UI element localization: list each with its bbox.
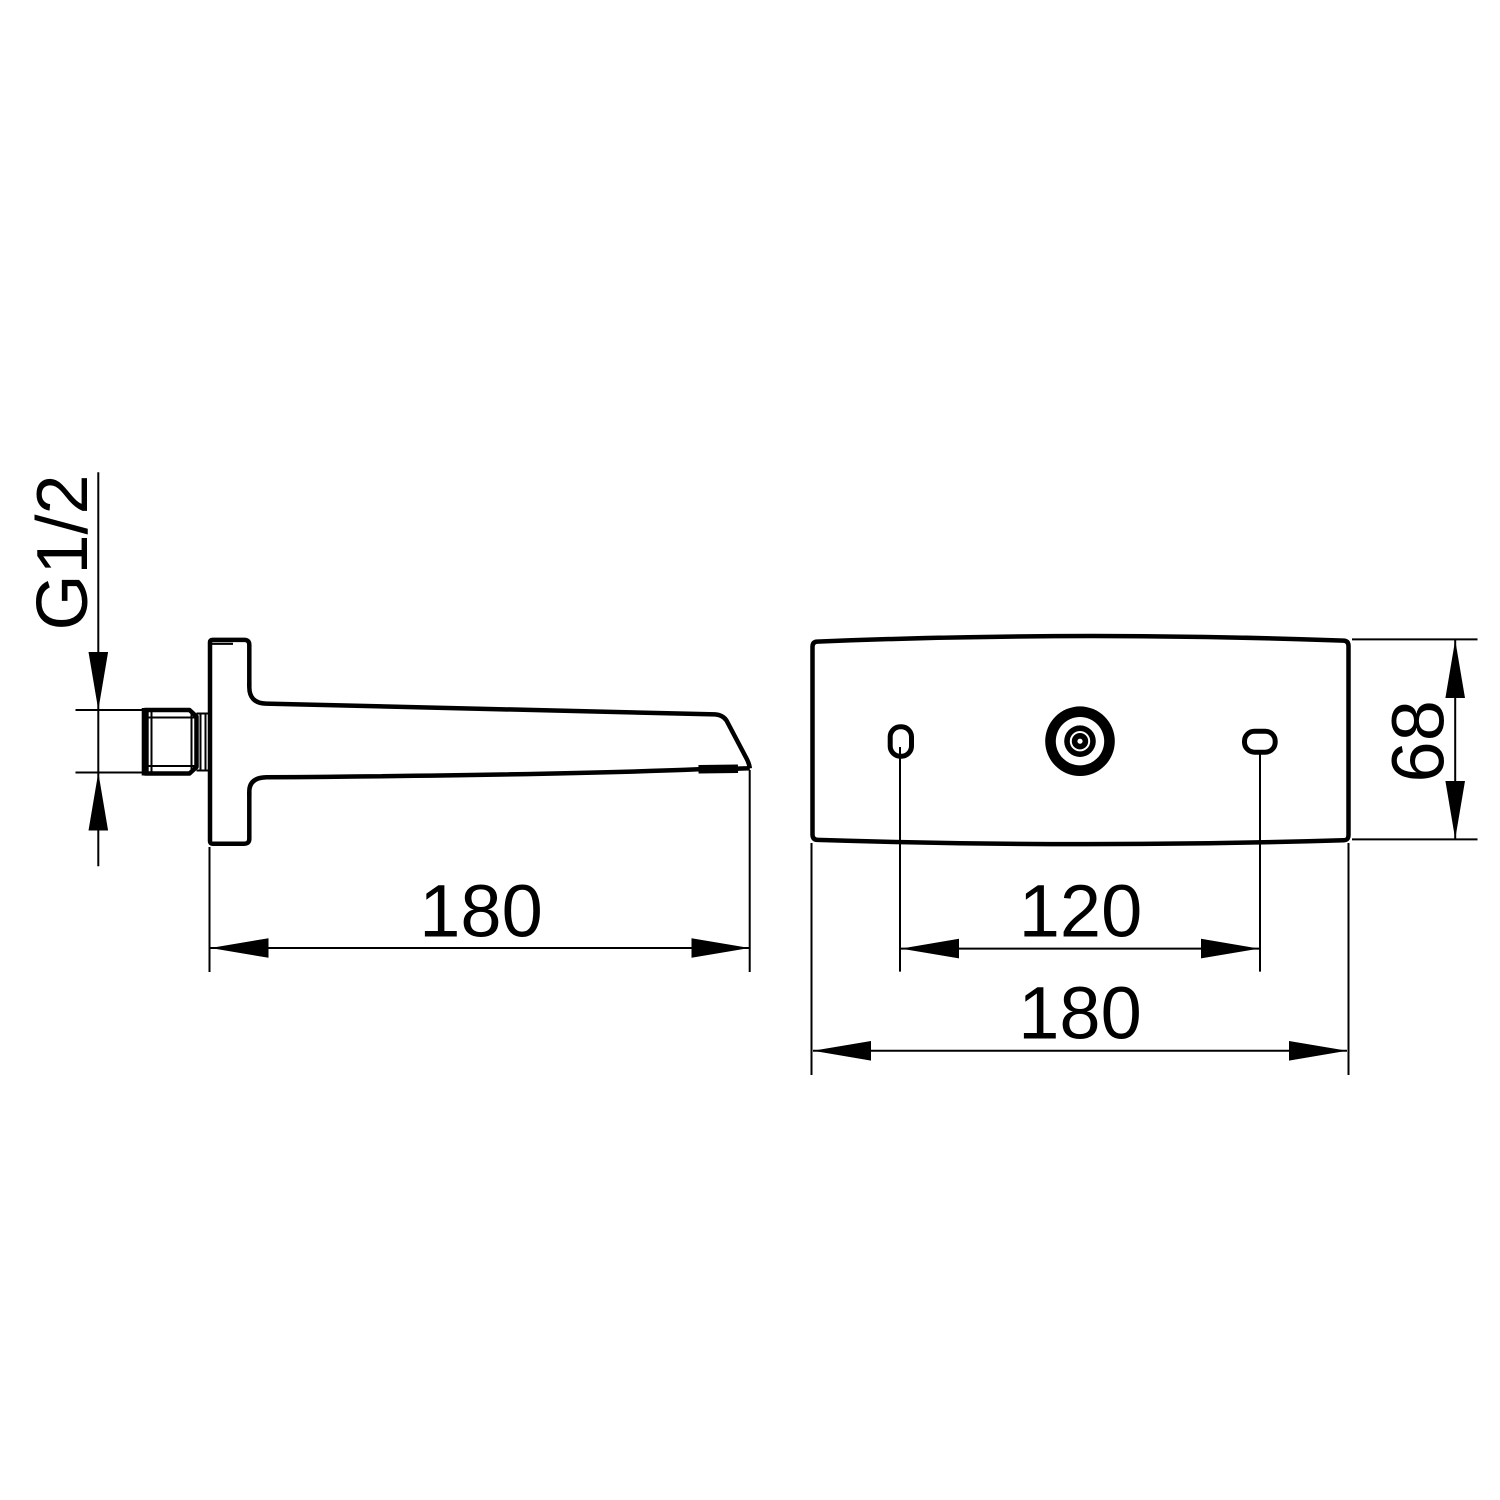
left mounting hole (890, 727, 911, 756)
right mounting hole (1245, 731, 1276, 752)
aerator middle ring (1064, 725, 1096, 757)
wire 120 extension line left (899, 747, 901, 972)
node G1/2 arrow down (89, 652, 109, 710)
node 68 arrow down (1445, 781, 1465, 839)
wire 68 extension line bottom (1352, 838, 1478, 840)
wire 180 right extension line left (811, 843, 813, 1075)
thread root line bottom (146, 765, 195, 767)
node 120 arrow right (1201, 939, 1259, 959)
plate step line (211, 643, 234, 645)
wire 68 dimension line (1454, 640, 1456, 839)
thread inner vertical left (151, 712, 153, 772)
wire G1/2 extension line top (76, 709, 147, 711)
spout top contour (249, 683, 750, 769)
spout bottom contour (249, 768, 750, 795)
wire 180 right dimension line (813, 1050, 1347, 1052)
wall plate side view fill (210, 640, 249, 844)
wire 180 left extension line right (749, 770, 751, 972)
spout body fill (249, 687, 750, 792)
wire 180 left extension line left (209, 847, 211, 972)
node 180 right arrow left (813, 1041, 871, 1061)
svg-text:180: 180 (1018, 972, 1141, 1055)
wire 120 dimension line (901, 948, 1259, 950)
node 180 right arrow right (1289, 1041, 1347, 1061)
wall plate side view outline (210, 640, 249, 844)
wire 180 right extension line right (1348, 843, 1350, 1075)
thread left face line (142, 708, 149, 776)
collar vertical line 1 (200, 714, 202, 771)
aerator inner disc (1072, 733, 1088, 749)
front plate outline (813, 636, 1349, 844)
spout outlet slot (699, 764, 739, 773)
svg-text:G1/2: G1/2 (23, 474, 103, 630)
wire 120 extension line right (1259, 753, 1261, 972)
thread inner vertical right (191, 712, 193, 772)
wire 180 left dimension line (211, 947, 750, 949)
node 120 arrow left (901, 939, 959, 959)
thread connector body (145, 710, 196, 774)
node 180 left arrow left (211, 938, 269, 958)
svg-text:120: 120 (1019, 869, 1142, 952)
thread root line top (146, 717, 195, 719)
svg-text:180: 180 (419, 870, 542, 953)
collar top line (197, 713, 210, 715)
wire G1/2 extension line bottom (76, 772, 147, 774)
wire G1/2 dimension line (97, 472, 99, 866)
node 68 arrow up (1445, 640, 1465, 698)
node G1/2 arrow up (89, 773, 109, 831)
collar bottom line (197, 770, 210, 772)
collar vertical line 2 (205, 714, 207, 771)
wire 68 extension line top (1352, 638, 1478, 640)
aerator outer ring (1045, 706, 1115, 776)
svg-text:68: 68 (1377, 700, 1460, 782)
node 180 left arrow right (692, 938, 750, 958)
